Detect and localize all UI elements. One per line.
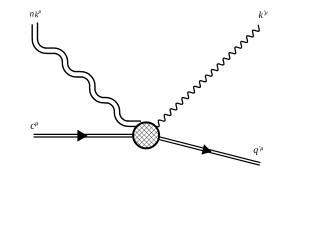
- incoming double wavy boson line (n k^mu), upper strand: [38, 23, 142, 122]
- incoming fermion double line (q^mu), lower strand: [34, 136, 134, 138]
- outgoing photon wavy line (k' mu): [156, 25, 259, 127]
- white trim on upper-left wavy strand tip: [31, 21, 35, 25]
- label c mu sup: [35, 122, 38, 126]
- arrowhead on incoming fermion line: [77, 130, 87, 142]
- label k': [259, 11, 263, 18]
- label q': [254, 148, 258, 155]
- label q' prime-mu sup: [260, 146, 264, 151]
- incoming fermion double line (q^mu), upper strand: [34, 133, 134, 135]
- label prime-mu sup: [264, 10, 267, 15]
- label mu sup: [38, 10, 41, 14]
- outgoing fermion double line (q'^mu), upper strand: [157, 136, 261, 162]
- label k: [35, 12, 38, 18]
- arrowhead on outgoing fermion line: [201, 144, 211, 154]
- outgoing fermion double line (q'^mu), lower strand: [156, 139, 260, 165]
- vertex blob (crosshatched circle): [133, 122, 159, 148]
- label n: [30, 12, 34, 16]
- incoming double wavy boson line (n k^mu), lower strand: [32, 23, 141, 127]
- label c: [31, 124, 35, 129]
